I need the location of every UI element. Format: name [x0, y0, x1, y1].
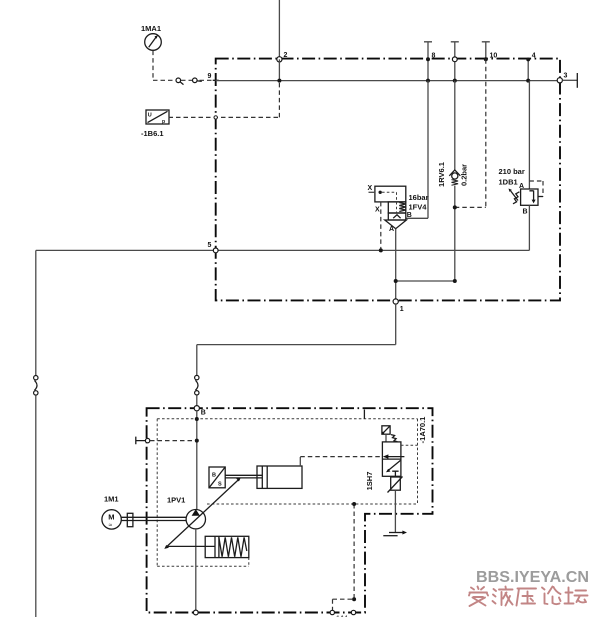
wire drain line [394, 490, 396, 532]
proportional solenoid bottom [391, 477, 401, 490]
control piston rod [225, 475, 262, 478]
svg-text:0.2bar: 0.2bar [460, 164, 469, 186]
svg-text:U: U [148, 113, 152, 119]
node B (port on power unit border) [194, 406, 199, 411]
spring 1FV4 [399, 203, 405, 212]
wire pilot X dashed [380, 202, 382, 251]
svg-text:-1A70.1: -1A70.1 [418, 417, 427, 444]
svg-text:5: 5 [208, 242, 212, 249]
drain collector dashed box [333, 599, 355, 611]
port 10 stub with terminator [482, 42, 490, 60]
wire check valve branch [454, 81, 456, 170]
check valve 1RV6.1 [449, 170, 460, 185]
spring [219, 537, 247, 556]
bias spring cylinder [205, 536, 249, 557]
svg-text:X: X [375, 207, 380, 214]
wire down from node 1 [197, 304, 396, 375]
wire poppet outlet [395, 229, 397, 299]
svg-text:1MA1: 1MA1 [141, 24, 161, 33]
svg-text:10: 10 [490, 53, 498, 60]
quick coupling left [176, 78, 181, 83]
crossing marker on left border [214, 116, 217, 119]
spring 1DB1 [513, 192, 519, 204]
sub-assembly dotted boundary 1A70.1 [157, 419, 417, 567]
svg-text:1RV6.1: 1RV6.1 [437, 162, 446, 187]
wire 1SH7 right port dashed [401, 444, 418, 446]
svg-text:2: 2 [284, 52, 288, 59]
wire gauge dashed line [153, 51, 176, 81]
pressure transducer -1B6.1 [146, 110, 169, 124]
svg-text:-1B6.1: -1B6.1 [141, 129, 164, 138]
svg-text:B: B [212, 473, 216, 479]
watermark CJK drawn strokes [469, 587, 588, 607]
node 1 (port on bottom border) [393, 299, 398, 304]
variable displacement arrow [167, 480, 238, 547]
svg-text:BBS.IYEYA.CN: BBS.IYEYA.CN [476, 569, 589, 586]
junction pilot X [379, 248, 383, 252]
wire drain dashed column [353, 504, 355, 599]
svg-text:1FV4: 1FV4 [409, 203, 428, 212]
glyph in lower cell [393, 215, 400, 218]
relief valve 1DB1 [521, 189, 538, 205]
wire far-left return line [35, 250, 37, 375]
wire cartridge B line [406, 81, 428, 219]
svg-text:A: A [389, 226, 394, 233]
boundary junction tick [363, 410, 365, 419]
pressure gauge 1MA1 [145, 34, 162, 51]
quick coupling pair on return line [34, 376, 38, 380]
bias piston rod [166, 545, 215, 547]
gauge port on left border [136, 437, 146, 445]
svg-text:X: X [368, 185, 373, 192]
port 8 stub with terminator [424, 42, 432, 81]
svg-text:1: 1 [400, 306, 404, 313]
quick coupling right [193, 78, 198, 83]
wire node2 drop [278, 59, 280, 80]
control box B/S [209, 467, 225, 488]
wire pump delivery link [396, 280, 455, 282]
poppet 1FV4 [385, 220, 407, 229]
svg-text:S: S [218, 482, 222, 488]
svg-text:1DB1: 1DB1 [499, 178, 518, 187]
wire [200, 79, 216, 81]
spring 1SH7 [391, 435, 397, 442]
svg-text:1SH7: 1SH7 [365, 472, 374, 491]
wire supply line from top [278, 0, 280, 58]
wire pilot 1DB1 dashed [529, 181, 543, 197]
wire transducer dashed to node [169, 81, 280, 117]
valve 1SH7 body [382, 442, 401, 476]
svg-text:9: 9 [208, 73, 212, 80]
svg-text:≈: ≈ [109, 522, 113, 529]
svg-text:16bar: 16bar [409, 193, 429, 202]
svg-text:3: 3 [564, 73, 568, 80]
blocked port T [392, 471, 398, 476]
wire pump pressure column [196, 411, 198, 510]
solenoid 1SH7 [382, 426, 390, 434]
svg-text:M: M [108, 513, 114, 522]
svg-text:8: 8 [432, 53, 436, 60]
quick coupling pair on pump line [195, 375, 199, 379]
flow arrow top section [386, 456, 404, 458]
node 2 (port on top border) [277, 57, 282, 62]
wire below check valve [454, 186, 456, 281]
wire [181, 79, 192, 81]
svg-text:p: p [162, 119, 165, 125]
cartridge valve 1FV4 pilot cover [375, 186, 406, 220]
port 4 drop [527, 59, 529, 80]
adjustment arrow 1DB1 [511, 191, 518, 201]
drain to tank symbol [389, 532, 404, 534]
wire gauge port dashed [150, 440, 195, 442]
wire pump column through unit [195, 529, 197, 610]
svg-text:B: B [523, 209, 528, 216]
wire pilot from cylinder [299, 457, 301, 466]
port X stub [369, 191, 375, 193]
wire return line to bottom edge [35, 395, 37, 617]
svg-text:4: 4 [532, 53, 536, 60]
coupling [127, 513, 133, 526]
svg-text:1M1: 1M1 [104, 495, 119, 504]
drive shaft [121, 517, 186, 520]
crossed arrow bottom section [388, 460, 401, 470]
relief valve 1DB1 feed [528, 81, 530, 189]
wire pilot dashed from port 10 [455, 59, 486, 207]
svg-text:1PV1: 1PV1 [167, 496, 185, 505]
node 3 (port on right border) [557, 78, 562, 83]
wire to power unit [196, 395, 198, 405]
wire tank line port 5 [36, 205, 530, 250]
svg-text:B: B [201, 410, 206, 417]
svg-text:210 bar: 210 bar [499, 167, 525, 176]
node 5 (port on left border) [213, 248, 218, 253]
stroking cylinder [257, 466, 302, 488]
wire main pressure header [216, 80, 560, 82]
svg-text:B: B [407, 212, 412, 219]
manifold boundary (chain-line rectangle) [216, 59, 560, 301]
power unit boundary (chain line) [147, 408, 433, 612]
junction [277, 79, 281, 83]
port stub with terminator (unlabelled) [451, 42, 459, 81]
node circles on bottom border [193, 610, 198, 615]
